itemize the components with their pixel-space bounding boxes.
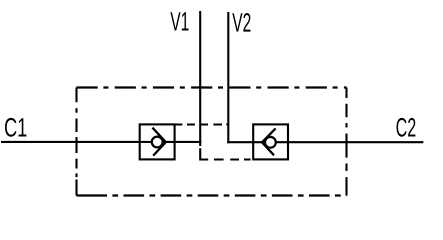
boundary enclosure (dash-dot box) top edge — [77, 86, 347, 88]
check valve left: square — [140, 124, 175, 159]
check valve right: seat — [262, 128, 276, 155]
boundary enclosure bottom edge — [77, 194, 108, 196]
label C2 — [396, 118, 415, 137]
label C1 — [5, 118, 26, 137]
boundary enclosure left edge — [75, 88, 77, 196]
wire C1 main line — [1, 141, 201, 143]
check valve right: square — [253, 124, 288, 159]
check valve right: ball — [265, 137, 276, 148]
boundary enclosure right edge — [345, 88, 347, 196]
wire V1 vertical — [199, 11, 201, 146]
pilot line bottom (dashed) — [199, 148, 250, 159]
label V2 — [232, 13, 250, 32]
check valve left: seat — [152, 128, 165, 156]
label V1 — [170, 12, 188, 30]
wire V2 vertical — [227, 12, 229, 143]
wire C2 main line — [227, 141, 423, 143]
check valve left: ball — [152, 137, 163, 148]
pilot line top (dashed) — [175, 123, 229, 125]
